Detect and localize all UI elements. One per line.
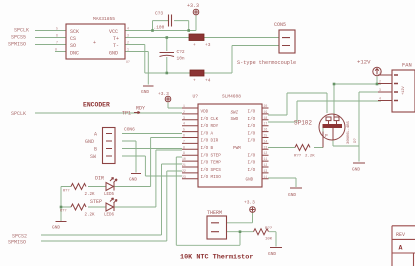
svg-text:18: 18 [264, 116, 268, 120]
svg-text:10K: 10K [265, 238, 273, 242]
svg-text:GND: GND [129, 177, 137, 183]
svg-text:+: + [93, 40, 96, 46]
svg-text:6: 6 [56, 34, 58, 38]
svg-text:7: 7 [56, 41, 58, 45]
svg-text:8: 8 [183, 145, 185, 149]
svg-text:I/O: I/O [201, 175, 209, 180]
svg-text:S-type thermocouple: S-type thermocouple [237, 60, 296, 66]
svg-text:A: A [399, 245, 403, 252]
svg-text:SCK: SCK [70, 29, 79, 35]
svg-text:19: 19 [264, 110, 268, 114]
svg-text:I/O: I/O [201, 139, 209, 144]
svg-text:REV: REV [396, 232, 405, 238]
svg-text:I/O: I/O [201, 161, 209, 166]
svg-text:12: 12 [264, 163, 268, 167]
svg-text:CON5: CON5 [274, 22, 286, 28]
svg-text:I/O: I/O [248, 131, 256, 136]
svg-text:C?3: C?3 [155, 11, 163, 17]
svg-text:TP1: TP1 [122, 111, 131, 117]
svg-text:21: 21 [182, 163, 186, 167]
svg-text:2: 2 [379, 80, 381, 84]
svg-text:.100: .100 [154, 25, 165, 31]
svg-text:GND: GND [52, 225, 60, 231]
svg-text:SPMISO: SPMISO [8, 42, 26, 48]
svg-text:B: B [211, 146, 214, 151]
svg-text:14: 14 [264, 139, 268, 143]
svg-text:DIR: DIR [95, 176, 104, 182]
svg-text:CON6: CON6 [124, 127, 135, 133]
svg-text:7: 7 [183, 139, 185, 143]
svg-text:R??: R?? [63, 190, 69, 194]
svg-text:MAX31855: MAX31855 [93, 16, 115, 22]
svg-text:+4: +4 [205, 78, 211, 84]
svg-text:A: A [94, 132, 97, 138]
svg-text:SP102: SP102 [294, 120, 312, 127]
svg-text:SPMISO: SPMISO [8, 240, 26, 246]
svg-text:5: 5 [183, 128, 185, 132]
svg-text:CS: CS [70, 36, 76, 42]
svg-text:T+: T+ [113, 36, 119, 42]
svg-text:4: 4 [183, 122, 185, 126]
svg-text:RDY: RDY [211, 124, 219, 129]
svg-text:DNC: DNC [70, 51, 79, 57]
svg-text:SPCS5: SPCS5 [11, 35, 26, 41]
svg-text:1: 1 [379, 71, 381, 75]
svg-text:30N06L-4BS: 30N06L-4BS [347, 120, 351, 144]
svg-text:SWO: SWO [231, 117, 239, 122]
svg-text:5: 5 [56, 27, 58, 31]
svg-text:GND: GND [85, 139, 94, 145]
svg-text:I/O: I/O [248, 117, 256, 122]
svg-text:17: 17 [264, 122, 268, 126]
svg-text:GND: GND [109, 51, 118, 57]
svg-text:12: 12 [264, 151, 268, 155]
svg-text:STEP: STEP [211, 153, 222, 158]
svg-text:I/O: I/O [248, 153, 256, 158]
svg-text:LED5: LED5 [104, 193, 115, 197]
svg-text:15: 15 [264, 134, 268, 138]
svg-text:THERM: THERM [207, 210, 222, 216]
svg-text:DIR: DIR [211, 139, 219, 144]
svg-text:MISO: MISO [211, 175, 222, 180]
svg-text:2: 2 [183, 110, 185, 114]
svg-text:+: + [193, 79, 196, 84]
svg-text:B: B [94, 147, 97, 153]
svg-text:GND: GND [352, 167, 360, 173]
svg-text:A: A [211, 131, 214, 136]
svg-text:SPCS: SPCS [211, 168, 222, 173]
svg-text:2: 2 [127, 41, 129, 45]
svg-text:6: 6 [183, 134, 185, 138]
svg-text:10n: 10n [177, 56, 185, 62]
svg-text:GND: GND [288, 192, 296, 198]
svg-text:I/O: I/O [248, 168, 256, 173]
svg-text:PWM: PWM [233, 146, 241, 151]
svg-text:P: P [325, 133, 328, 139]
svg-text:I/O: I/O [201, 146, 209, 151]
svg-text:VDD: VDD [201, 110, 209, 115]
svg-text:4: 4 [379, 97, 381, 101]
svg-text:R??: R?? [294, 155, 302, 159]
svg-text:ENCODER: ENCODER [83, 102, 110, 109]
svg-text:SO: SO [70, 43, 76, 49]
svg-text:I/O: I/O [201, 153, 209, 158]
svg-text:13: 13 [264, 169, 268, 173]
svg-text:9: 9 [183, 151, 185, 155]
svg-text:11: 11 [264, 175, 268, 179]
svg-text:10: 10 [182, 157, 186, 161]
svg-text:+: + [193, 43, 196, 48]
svg-text:D?: D? [354, 138, 358, 143]
svg-text:FAN: FAN [402, 63, 412, 69]
svg-text:GND: GND [246, 178, 254, 183]
svg-text:4: 4 [127, 27, 129, 31]
svg-text:LED6: LED6 [104, 214, 115, 218]
svg-text:SLM4608: SLM4608 [222, 94, 241, 100]
svg-text:22: 22 [182, 169, 186, 173]
svg-text:C?2: C?2 [177, 49, 185, 55]
svg-text:I/O: I/O [248, 139, 256, 144]
svg-text:GND: GND [141, 89, 149, 95]
svg-text:11: 11 [264, 157, 268, 161]
svg-text:+12V: +12V [402, 78, 406, 95]
svg-text:8: 8 [55, 48, 57, 52]
svg-text:1: 1 [183, 104, 185, 108]
svg-text:CLK: CLK [211, 117, 219, 122]
svg-text:TEMP: TEMP [211, 161, 222, 166]
svg-text:I/O: I/O [201, 117, 209, 122]
svg-text:SW: SW [90, 154, 96, 160]
svg-text:R??: R?? [265, 227, 273, 231]
svg-text:I/O: I/O [201, 168, 209, 173]
svg-text:20: 20 [264, 104, 268, 108]
svg-text:3: 3 [127, 34, 129, 38]
svg-text:+3.3: +3.3 [187, 3, 199, 9]
svg-text:RDY: RDY [136, 106, 145, 112]
svg-text:R??: R?? [60, 210, 66, 214]
svg-text:2.2K: 2.2K [85, 214, 96, 218]
svg-text:STEP: STEP [90, 199, 102, 205]
svg-text:U?: U? [193, 94, 199, 100]
svg-text:3: 3 [379, 88, 381, 92]
svg-text:2.2K: 2.2K [85, 193, 96, 197]
svg-text:U?: U? [126, 60, 130, 64]
svg-text:SPCLK: SPCLK [14, 28, 29, 34]
svg-text:+12V: +12V [357, 59, 371, 66]
svg-text:I/O: I/O [248, 124, 256, 129]
svg-text:T-: T- [113, 43, 119, 49]
svg-text:16: 16 [264, 128, 268, 132]
svg-text:2.2K: 2.2K [305, 155, 315, 159]
svg-text:1: 1 [127, 48, 129, 52]
svg-text:GND: GND [268, 251, 276, 257]
svg-text:SWI: SWI [231, 111, 239, 116]
svg-text:3: 3 [183, 116, 185, 120]
svg-text:+3.3: +3.3 [158, 91, 169, 97]
svg-text:10K NTC Thermistor: 10K NTC Thermistor [180, 254, 253, 262]
svg-text:I/O: I/O [201, 124, 209, 129]
svg-text:+3: +3 [205, 42, 211, 48]
svg-text:13: 13 [264, 145, 268, 149]
svg-text:SPCLK: SPCLK [11, 111, 26, 117]
svg-text:23: 23 [182, 175, 186, 179]
svg-text:I/O: I/O [248, 161, 256, 166]
svg-text:+3.3: +3.3 [244, 200, 255, 206]
svg-text:I/O: I/O [201, 131, 209, 136]
svg-text:I/O: I/O [248, 110, 256, 115]
svg-text:VCC: VCC [109, 29, 118, 35]
